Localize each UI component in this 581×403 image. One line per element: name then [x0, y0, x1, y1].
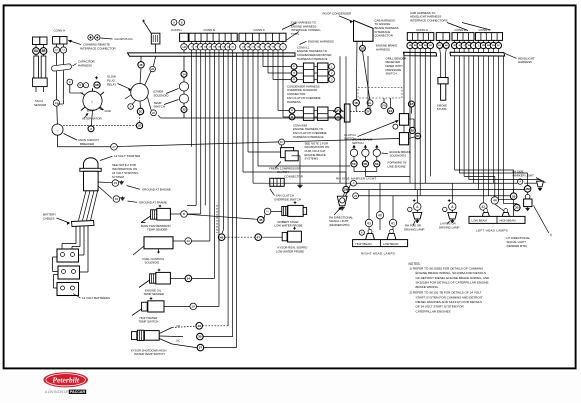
stack 1 housing B: [317, 63, 328, 83]
node 44: [491, 197, 498, 204]
dashed wire relay down: [139, 115, 141, 123]
wire M to probe: [187, 214, 257, 219]
svg-text:HARNESS INTERFACE: HARNESS INTERFACE: [293, 135, 324, 139]
wires left head lamps: [482, 190, 484, 203]
wire E4 drop: [204, 53, 206, 206]
node 2X: [388, 108, 394, 114]
svg-text:HARNESS: HARNESS: [78, 63, 92, 67]
stack 1 tie wires: [297, 66, 304, 68]
node 24: [181, 71, 187, 77]
wire bus y189: [349, 189, 524, 191]
svg-text:DRIVING LAMP: DRIVING LAMP: [404, 227, 424, 231]
svg-text:RELAY: RELAY: [107, 82, 116, 86]
dashed wire breaker to relay node: [63, 125, 136, 127]
svg-text:R: R: [79, 84, 81, 87]
relay node bottom 1G: [137, 108, 143, 114]
svg-text:HARNESS INTERFACE: HARNESS INTERFACE: [297, 57, 328, 61]
wire E6 drop: [213, 53, 215, 279]
leader CONN F to labels: [287, 32, 300, 41]
svg-text:2M: 2M: [487, 45, 490, 47]
connector CONN F block: [239, 33, 286, 41]
svg-text:LOW WATER PROBE: LOW WATER PROBE: [275, 224, 303, 228]
svg-text:LOW WATER PROBE: LOW WATER PROBE: [276, 249, 304, 253]
node 2M2: [524, 186, 531, 193]
svg-text:40: 40: [378, 213, 382, 217]
kysor shutdown switch: [132, 332, 137, 340]
glow plug terminals: [88, 35, 93, 40]
relay node top 1F: [138, 62, 144, 68]
node 2W: [381, 103, 387, 109]
alternator U3: [83, 91, 102, 110]
svg-text:CATERPILLAR ENGINES: CATERPILLAR ENGINES: [416, 309, 451, 313]
robert shaw probe: [282, 206, 287, 215]
svg-text:30: 30: [115, 197, 119, 201]
marker node 29b: [353, 193, 359, 199]
svg-text:ENGINE HARNESS: ENGINE HARNESS: [308, 39, 334, 43]
main transmission temp sender: [151, 210, 157, 219]
harness bus bar: [128, 53, 296, 56]
wire CONN L drop: [183, 53, 185, 71]
svg-text:44: 44: [493, 199, 497, 203]
svg-text:M: M: [183, 212, 186, 216]
wire E11 drop: [236, 53, 238, 348]
leader to CONN H: [69, 41, 82, 45]
node small: [393, 124, 398, 129]
node 46: [218, 234, 225, 241]
jake brake switch 1: [350, 149, 357, 156]
svg-text:NO: NO: [177, 325, 181, 328]
alternator terminal nodes: [78, 83, 83, 88]
wire F7 drop: [272, 53, 274, 80]
node 25: [181, 107, 187, 113]
wire sender diag: [141, 216, 151, 223]
svg-text:OF DETROIT DIESEL ENGINE BRAKE: OF DETROIT DIESEL ENGINE BRAKE WIRING, A…: [416, 276, 491, 280]
svg-text:1R: 1R: [361, 46, 365, 50]
svg-text:PACCAR: PACCAR: [70, 390, 86, 394]
LH head lamp low: [484, 209, 488, 213]
wire CONN G drops: [409, 53, 411, 184]
svg-text:(FENDER MTD): (FENDER MTD): [329, 223, 350, 227]
connector CONN J block: [476, 33, 503, 41]
dashed receiver drier box: [358, 88, 402, 99]
stack 2 left pins: [289, 108, 295, 114]
leader to CONN H: [447, 23, 468, 31]
node 27: [111, 144, 118, 151]
node below alternator: [88, 126, 94, 132]
wires smoke studs merge: [440, 49, 441, 57]
svg-text:Ⓡ: Ⓡ: [550, 233, 553, 237]
wire glow plug down: [155, 44, 157, 53]
wire: [145, 71, 152, 85]
svg-text:1) REFER TO SK102B2 FOR DETAIL: 1) REFER TO SK102B2 FOR DETAILS OF CUMMI…: [410, 266, 484, 270]
node 3C: [415, 133, 421, 139]
connector CONN L: [180, 33, 189, 41]
long wire 27 to clutch switch: [117, 139, 399, 147]
wire fcs diag: [133, 246, 144, 255]
svg-text:TEMP SWITCH: TEMP SWITCH: [139, 320, 159, 324]
svg-text:HARNESS: HARNESS: [376, 47, 390, 51]
engine oil temp sender: [150, 274, 156, 283]
svg-text:LINE ENGINE: LINE ENGINE: [388, 164, 406, 168]
wire glow plug diagonal: [144, 23, 151, 34]
stack 1 housing A: [303, 63, 314, 83]
roof condenser: [354, 20, 374, 41]
svg-text:27: 27: [112, 145, 116, 149]
wire bus118: [161, 117, 345, 119]
plus mark: [95, 77, 98, 79]
relay node bottom left: [128, 104, 134, 110]
svg-text:RH SIDE MARKER LIGHT: RH SIDE MARKER LIGHT: [336, 177, 377, 181]
svg-text:ENGINE BRAKE WIRING, SK101BA F: ENGINE BRAKE WIRING, SK101BA FOR DETAILS: [416, 271, 486, 275]
glow plug relay K1: [131, 84, 149, 102]
node 1R: [360, 45, 366, 51]
svg-text:29: 29: [114, 181, 118, 185]
svg-text:2Y: 2Y: [366, 110, 370, 114]
svg-text:CONN E: CONN E: [204, 28, 216, 32]
svg-text:A: A: [173, 20, 175, 24]
wire E8 drop: [223, 53, 225, 230]
connector CONN H block: [452, 33, 474, 41]
svg-text:CONN F: CONN F: [254, 28, 266, 32]
svg-text:1G: 1G: [138, 109, 143, 113]
LH directional signal light: [525, 194, 530, 199]
wire alternator leads: [69, 85, 71, 93]
wires starter to grounds: [98, 181, 112, 184]
Peterbilt logo: [43, 372, 88, 387]
kysor probe: [282, 232, 287, 240]
clutch switch S3: [399, 114, 408, 126]
pressure switch bar: [344, 104, 350, 122]
node 37: [197, 344, 204, 351]
svg-text:LO: LO: [266, 211, 269, 213]
svg-text:5E: 5E: [375, 162, 379, 166]
dashed vertical 217: [216, 205, 218, 233]
wire direction leader: [534, 206, 549, 234]
svg-text:NC: NC: [177, 340, 181, 343]
smoke stud pins: [437, 43, 443, 49]
svg-text:LOW BEAM: LOW BEAM: [383, 242, 399, 246]
LH corner lamp: [537, 181, 544, 187]
svg-text:GROUND AT ENGINE: GROUND AT ENGINE: [142, 187, 171, 191]
node 2Y: [365, 109, 371, 115]
pin 1D2: [181, 44, 187, 50]
RH head lamp low: [390, 229, 394, 233]
node 30b: [514, 204, 521, 211]
node 47: [255, 234, 262, 241]
svg-text:5D: 5D: [364, 162, 368, 166]
small node lh fog: [443, 207, 447, 211]
node 2L: [367, 100, 373, 106]
battery B3: [57, 283, 79, 296]
small node rh fog: [408, 207, 412, 211]
freon compressor clutch: [281, 148, 294, 158]
svg-text:SK101BH FOR DETAILS OF CATERPI: SK101BH FOR DETAILS OF CATERPILLAR ENGIN…: [416, 281, 489, 285]
wire bar end drops: [339, 56, 341, 183]
wire jake to right: [364, 172, 366, 177]
svg-text:46: 46: [220, 235, 224, 239]
svg-text:37: 37: [199, 346, 203, 350]
svg-text:25: 25: [182, 108, 186, 112]
wire E1 drop: [191, 53, 193, 147]
wire E3 drop: [200, 53, 202, 214]
wires probe: [264, 215, 265, 219]
svg-text:DIESEL ENGINES AND SK131(7) FO: DIESEL ENGINES AND SK131(7) FOR DETAILS: [416, 300, 483, 304]
svg-text:INTERFACE CONNECTORS: INTERFACE CONNECTORS: [410, 19, 448, 23]
CONN H pins: [454, 40, 456, 42]
wire E10 drop: [232, 53, 234, 337]
pin 8B: [40, 48, 47, 55]
wire E2 drop: [195, 53, 197, 206]
wire F2 drop: [247, 53, 249, 152]
node 45: [258, 217, 265, 224]
svg-text:OVERRIDE SWITCH: OVERRIDE SWITCH: [274, 197, 301, 201]
node 43: [365, 219, 372, 226]
capacitor: [51, 64, 72, 72]
relay node upper right: [150, 66, 156, 72]
stack 2 tie wires: [295, 110, 304, 112]
svg-text:HIGH BEAM: HIGH BEAM: [500, 219, 517, 223]
node 40: [376, 212, 383, 219]
node 1D: [136, 123, 142, 129]
LH head lamp box: [469, 216, 525, 223]
svg-text:ROOF CONDENSER: ROOF CONDENSER: [323, 12, 353, 16]
svg-text:BATT: BATT: [87, 109, 94, 113]
node 33: [510, 193, 517, 200]
node 41: [389, 219, 396, 226]
wire CONN H pin D down: [55, 53, 57, 100]
glow plug GP1: [151, 33, 160, 44]
svg-text:DRIVING LAMP: DRIVING LAMP: [439, 225, 459, 229]
svg-text:CONNECTOR: CONNECTOR: [375, 34, 393, 38]
svg-text:33: 33: [512, 194, 516, 198]
svg-text:Peterbilt: Peterbilt: [52, 376, 80, 385]
high water temp switch: [142, 302, 148, 311]
svg-text:CONN J: CONN J: [479, 28, 491, 32]
CONN G pins: [409, 40, 411, 42]
svg-text:HIGH BEAM: HIGH BEAM: [356, 242, 373, 246]
wire node 21 to breaker: [56, 106, 59, 124]
stack 2 right pins: [335, 107, 341, 113]
node 35: [197, 333, 204, 340]
terminal rings A B: [171, 20, 177, 26]
wire F5 drop: [262, 53, 264, 67]
svg-text:~: ~: [57, 128, 59, 132]
svg-text:1D: 1D: [138, 124, 142, 128]
node 9B: [94, 82, 100, 88]
bus bar 2 CONN G: [404, 52, 437, 56]
marker node A: [351, 180, 357, 186]
node 42: [480, 203, 487, 210]
wires cables to batteries: [75, 227, 77, 244]
ether solenoid L2: [179, 82, 188, 91]
svg-text:GLOW PLUG: GLOW PLUG: [115, 37, 134, 41]
LH fog lamp: [449, 203, 456, 210]
node 46b: [196, 323, 203, 330]
stack 1 left pins: [291, 64, 297, 70]
svg-text:47: 47: [256, 235, 260, 239]
jake brake switch 3: [373, 149, 380, 156]
svg-text:39: 39: [411, 128, 415, 132]
wire E5 drop: [209, 53, 211, 241]
jake node 2: [362, 161, 368, 167]
svg-text:SYSTEMS: SYSTEMS: [305, 157, 319, 161]
jake node 1: [351, 161, 357, 167]
svg-text:SOLENOIDS: SOLENOIDS: [390, 154, 407, 158]
dashed wire into bar: [333, 111, 344, 113]
svg-text:C3: C3: [293, 79, 295, 81]
svg-text:A: A: [130, 104, 132, 108]
svg-text:TEMP SENDER: TEMP SENDER: [147, 228, 168, 232]
clutch overdrive box: [399, 133, 408, 145]
leader to CONN J: [462, 23, 491, 31]
node 1K: [353, 100, 359, 106]
RH head lamp box: [353, 240, 408, 247]
svg-text:1F: 1F: [139, 63, 143, 67]
battery cables bundle: [72, 221, 95, 227]
wire CONN H drops: [454, 56, 456, 170]
svg-text:F1: F1: [291, 110, 293, 112]
svg-text:SENSOR: SENSOR: [34, 103, 46, 107]
svg-text:CONN L: CONN L: [171, 28, 183, 32]
jake wires down: [353, 167, 355, 172]
node A2: [359, 230, 364, 235]
node LOW: [264, 208, 271, 215]
svg-text:35: 35: [198, 335, 202, 339]
svg-text:42: 42: [481, 205, 485, 209]
svg-text:12 VOLT STARTER: 12 VOLT STARTER: [114, 154, 141, 158]
svg-text:24: 24: [182, 72, 186, 76]
svg-text:BRAKE WIRING.: BRAKE WIRING.: [416, 285, 440, 289]
relay spoke left: [125, 95, 131, 99]
stack 2 housing B: [317, 107, 328, 120]
svg-text:GND: GND: [105, 109, 111, 113]
bus bar 3 CONN H J: [450, 52, 505, 56]
svg-text:C1: C1: [293, 66, 295, 68]
CONN J pins: [477, 40, 479, 42]
wire relay top: [140, 68, 141, 84]
svg-text:30: 30: [515, 206, 519, 210]
wires to RH head lamps: [379, 183, 381, 211]
smoke studs body: [438, 78, 448, 84]
svg-text:SWITCH: SWITCH: [386, 72, 397, 76]
leader lh side marker: [536, 178, 546, 183]
pin D: [53, 47, 59, 53]
svg-text:2) REFER TO SK101-7B FOR DETAI: 2) REFER TO SK101-7B FOR DETAILS OF 24 V…: [410, 291, 482, 295]
svg-text:A: A: [519, 180, 521, 184]
svg-text:OF 24 VOLT START SYSTEM FOR: OF 24 VOLT START SYSTEM FOR: [416, 305, 465, 309]
svg-text:21: 21: [55, 101, 59, 105]
svg-text:2E: 2E: [151, 67, 154, 71]
battery B1: [57, 249, 79, 262]
node 2Z: [408, 101, 414, 107]
svg-text:CONN H: CONN H: [54, 29, 66, 33]
svg-text:2W: 2W: [382, 104, 387, 108]
svg-text:STUDS: STUDS: [437, 107, 447, 111]
tach sensor: [35, 54, 37, 56]
CONN F pins: [242, 41, 244, 43]
pin U: [60, 47, 66, 53]
wire to node 27: [58, 146, 111, 148]
svg-text:40: 40: [186, 239, 190, 243]
svg-text:2M: 2M: [525, 187, 530, 191]
LH head lamp high: [504, 209, 508, 213]
svg-text:LOW BEAM: LOW BEAM: [472, 219, 488, 223]
svg-text:MARKER LIGHT: MARKER LIGHT: [513, 173, 535, 177]
svg-text:2F: 2F: [152, 111, 156, 115]
connector COMM H left pair: [33, 37, 40, 45]
svg-text:2G: 2G: [252, 47, 255, 49]
wire F4 drop: [257, 53, 259, 166]
wire F9 drop: [282, 53, 284, 117]
node 21: [53, 100, 59, 106]
pin 8A: [33, 48, 40, 55]
svg-text:HARNESS: HARNESS: [287, 100, 301, 104]
svg-text:12 VOLT BATTERIES: 12 VOLT BATTERIES: [82, 296, 110, 300]
CONN E pins: [191, 41, 193, 44]
svg-text:2X: 2X: [389, 109, 393, 113]
wire oil diag: [139, 280, 150, 288]
svg-text:BREAKER: BREAKER: [80, 142, 95, 146]
svg-text:CONN H: CONN H: [455, 28, 467, 32]
clutch connector: [270, 178, 284, 186]
wire F6 drop: [267, 53, 269, 73]
marker node 2M: [343, 186, 349, 192]
wire breaker down: [57, 135, 59, 147]
node 36: [190, 303, 197, 310]
svg-text:LEFT HEAD LAMPS: LEFT HEAD LAMPS: [476, 229, 508, 233]
svg-text:34: 34: [187, 277, 191, 281]
wire E7 drop: [218, 53, 220, 307]
svg-text:TORS: TORS: [291, 32, 299, 36]
wires marker: [346, 184, 351, 196]
dashed to kysor probe: [225, 236, 255, 238]
wire F3 drop: [252, 53, 254, 183]
svg-text:C2: C2: [293, 73, 295, 75]
svg-text:INTERFACE CONNECTOR: INTERFACE CONNECTOR: [80, 47, 116, 51]
svg-text:HARNESS: HARNESS: [518, 60, 532, 64]
svg-text:FC: FC: [280, 140, 284, 144]
svg-text:SOLENOID: SOLENOID: [154, 93, 169, 97]
svg-text:SWITCH: SWITCH: [352, 141, 363, 145]
connector CONN G block: [407, 33, 434, 41]
connector smoke studs pair: [436, 33, 449, 41]
ground at clutch: [299, 184, 301, 186]
wire hwts diag: [132, 309, 142, 316]
svg-text:(FENDER MTD): (FENDER MTD): [507, 244, 528, 248]
wires starter down to battery cables: [79, 191, 87, 221]
svg-text:8A: 8A: [34, 49, 39, 53]
wire CONN H pin U down: [63, 53, 65, 64]
stack 1 right pins: [329, 64, 335, 70]
svg-text:2L: 2L: [368, 101, 372, 105]
wire to bus118: [183, 113, 185, 119]
svg-text:START SYSTEM FOR CUMMINS AND D: START SYSTEM FOR CUMMINS AND DETROIT: [416, 295, 483, 299]
svg-text:U: U: [62, 48, 64, 52]
svg-text:SWITCH: SWITCH: [154, 105, 165, 109]
svg-text:A: A: [353, 181, 355, 185]
main circuit breaker CB1: [52, 124, 63, 135]
svg-text:36: 36: [191, 305, 195, 309]
svg-text:3C: 3C: [416, 134, 420, 138]
wires roof condenser down: [355, 41, 358, 99]
wire bus y195: [359, 195, 511, 197]
fuel control solenoid: [144, 237, 173, 249]
stack 2 housing A: [303, 107, 314, 120]
wire CONN J drops: [477, 56, 479, 190]
temp switch S2: [179, 94, 188, 103]
wire bus y183: [356, 182, 517, 184]
RH fog lamp: [414, 203, 421, 210]
